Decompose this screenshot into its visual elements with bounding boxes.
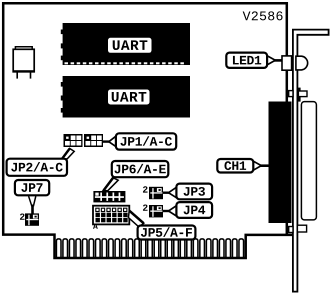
wire JP3 stub <box>163 192 171 194</box>
pin A label JP5 <box>93 224 98 229</box>
label JP5/A-F <box>128 211 195 240</box>
label CH1 <box>217 159 261 173</box>
screw tab top-left <box>289 91 293 97</box>
UART chip U2 <box>61 76 190 118</box>
wire JP4 stub <box>163 210 171 212</box>
edge connector fingers <box>56 239 243 257</box>
UART chip U1 <box>61 23 190 65</box>
pin 2 label JP4 <box>143 204 148 210</box>
LED holder <box>282 56 292 70</box>
screw post black bar (top) <box>297 88 300 102</box>
label JP7 <box>15 180 49 214</box>
label JP6/A-E <box>103 161 168 191</box>
label JP4 <box>169 202 213 218</box>
wire CH1 stub <box>259 164 270 167</box>
jumper block JP4 <box>149 205 163 217</box>
jumper block JP5 <box>93 206 129 225</box>
jumper block JP6 <box>93 191 125 202</box>
UART label U1 <box>108 38 152 53</box>
wire LED1 stub <box>274 59 283 62</box>
connector CH1 (black body) <box>269 102 292 224</box>
UART label U2 <box>108 90 150 105</box>
pin 2 label JP7 <box>20 213 25 219</box>
jumper block JP1/JP2 header <box>64 134 104 147</box>
DB connector shell <box>301 102 316 220</box>
crystal Y1 <box>13 47 35 79</box>
screw tab top-right <box>298 91 307 97</box>
bracket <box>293 30 329 292</box>
LED lens <box>296 56 308 70</box>
text V2586 <box>243 11 283 20</box>
label JP1/A-C <box>109 133 176 149</box>
wire JP1 stub <box>103 140 111 142</box>
screw tab bottom-left <box>289 227 293 233</box>
label JP2/A-C <box>7 148 75 175</box>
card outline (PCB) <box>3 3 292 258</box>
jumper block JP7 <box>25 213 39 225</box>
jumper block JP3 <box>149 187 163 199</box>
label LED1 <box>226 53 275 68</box>
pin 2 label JP3 <box>143 186 148 192</box>
label JP3 <box>169 184 213 200</box>
screw tab bottom-right <box>297 225 306 232</box>
